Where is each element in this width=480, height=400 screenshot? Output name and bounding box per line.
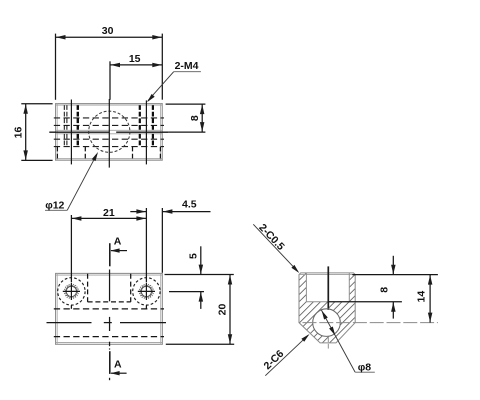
front view bottom chamfer line xyxy=(56,158,163,160)
M4 left hole thread lines xyxy=(63,105,65,130)
phi8 hidden line far xyxy=(54,336,164,338)
phi8 hidden line near xyxy=(54,308,164,310)
phi12 bore wall right xyxy=(348,273,350,302)
phi12 hidden lines plan view xyxy=(87,274,89,302)
dimension 8 front view xyxy=(166,103,206,105)
label 2-C6 with leader xyxy=(265,335,308,376)
phi8 relief hole xyxy=(313,309,341,337)
phi12 vertical centerline xyxy=(108,99,110,168)
dimension 16 xyxy=(21,103,52,105)
M4 tapped hole right plan view xyxy=(133,278,160,305)
M4 right hole thread lines xyxy=(139,105,141,130)
plan view outline xyxy=(56,273,163,344)
svg-text:A: A xyxy=(114,236,122,248)
svg-text:2-C0.5: 2-C0.5 xyxy=(256,222,287,253)
dimension 5 xyxy=(165,273,234,275)
svg-text:8: 8 xyxy=(189,115,201,121)
dimension 20 xyxy=(166,343,234,345)
dimension 4.5 xyxy=(130,211,146,213)
label 2-M4 with leader xyxy=(174,71,201,73)
svg-text:20: 20 xyxy=(217,304,229,316)
svg-text:φ8: φ8 xyxy=(358,362,372,374)
label phi12 with leader xyxy=(45,209,67,211)
section hatching xyxy=(210,268,447,348)
hidden dash below right hole xyxy=(145,305,147,309)
front view right chamfer line xyxy=(160,104,162,161)
svg-text:16: 16 xyxy=(13,127,25,139)
slit centerline xyxy=(49,131,109,133)
phi12 hidden circle xyxy=(89,111,130,152)
plan view chamfer lines xyxy=(56,274,163,276)
slit bottom line xyxy=(56,133,163,135)
svg-text:φ12: φ12 xyxy=(45,199,64,211)
dimension 14 xyxy=(429,275,431,323)
section top chamfer line xyxy=(299,274,355,276)
phi8 cross hole hidden line top xyxy=(54,117,164,119)
svg-text:2-C6: 2-C6 xyxy=(262,348,287,372)
phi8 centerline plan view xyxy=(47,322,92,324)
dimension 30 xyxy=(55,34,57,100)
label 2-C0.5 with leader xyxy=(253,224,298,271)
counterbore hidden lines right hole xyxy=(132,147,134,159)
svg-text:30: 30 xyxy=(102,25,114,37)
phi4 hidden line top xyxy=(54,124,164,126)
M4 right hole centerline xyxy=(145,100,147,164)
M4 hole right crosshair xyxy=(138,290,155,292)
dimension 21 xyxy=(70,215,72,282)
slit top line xyxy=(56,129,163,131)
dimension 8 section xyxy=(352,274,438,276)
vertical centerline plan view xyxy=(109,270,111,302)
svg-text:14: 14 xyxy=(415,291,427,303)
front view left chamfer line xyxy=(56,104,58,161)
slit line section xyxy=(327,266,329,310)
centerline dot below A marker xyxy=(109,378,111,380)
svg-text:2-M4: 2-M4 xyxy=(175,60,199,72)
svg-text:8: 8 xyxy=(379,287,391,293)
counterbore hidden lines left hole xyxy=(56,147,58,159)
svg-text:A: A xyxy=(114,359,122,371)
M4 hole left crosshair xyxy=(63,290,80,292)
front view top chamfer line xyxy=(56,104,163,106)
section line A top xyxy=(109,243,111,266)
label phi8 with leader and diameter arrows xyxy=(321,310,355,372)
phi8 cross hole hidden line bottom xyxy=(54,146,164,148)
phi8 horizontal centerline xyxy=(303,322,438,324)
hidden dash below left hole xyxy=(70,305,72,309)
section view outline xyxy=(299,273,355,343)
svg-text:5: 5 xyxy=(188,253,200,259)
phi4 hidden line bottom xyxy=(54,138,164,140)
front view outline xyxy=(56,104,163,161)
dimension 15 xyxy=(109,61,111,100)
section line A bottom xyxy=(109,351,111,374)
svg-text:21: 21 xyxy=(103,207,115,219)
phi12 bore wall left xyxy=(305,273,307,302)
svg-text:15: 15 xyxy=(129,53,141,65)
M4 tapped hole left plan view xyxy=(58,278,85,305)
M4 left hole centerline xyxy=(70,100,72,165)
phi12 bore floor xyxy=(306,301,328,303)
phi8 vertical centerline below xyxy=(327,337,329,343)
svg-text:4.5: 4.5 xyxy=(182,199,197,211)
